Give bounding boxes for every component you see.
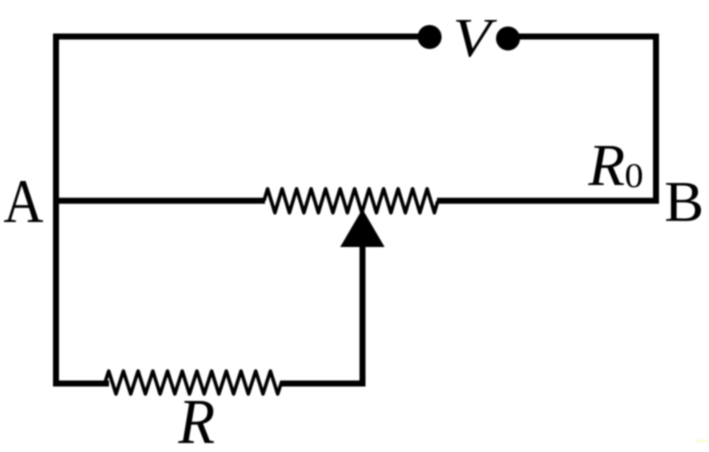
node A label xyxy=(4,181,43,222)
wiper arrow of potentiometer xyxy=(340,209,384,247)
wire middle-right: potentiometer to node B xyxy=(437,198,659,204)
resistor R winding xyxy=(105,371,281,394)
node B label xyxy=(666,183,701,221)
voltmeter terminal dot left xyxy=(418,25,442,49)
wire top-left: from voltmeter dot left along top, down left side to bottom branch xyxy=(56,37,429,384)
wire middle-left: node A to potentiometer xyxy=(53,198,265,204)
R value label xyxy=(178,401,214,443)
voltmeter terminal dot right xyxy=(496,27,520,51)
potentiometer R0 winding xyxy=(264,189,438,213)
R0 subscript 0 xyxy=(626,164,642,187)
voltmeter V label xyxy=(456,20,497,57)
scan artifact xyxy=(696,440,709,442)
R0 value label xyxy=(588,146,624,185)
wire wiper stem down to bottom branch xyxy=(280,245,363,384)
wire top-right: from right dot along top, down right side to node B xyxy=(508,37,656,201)
